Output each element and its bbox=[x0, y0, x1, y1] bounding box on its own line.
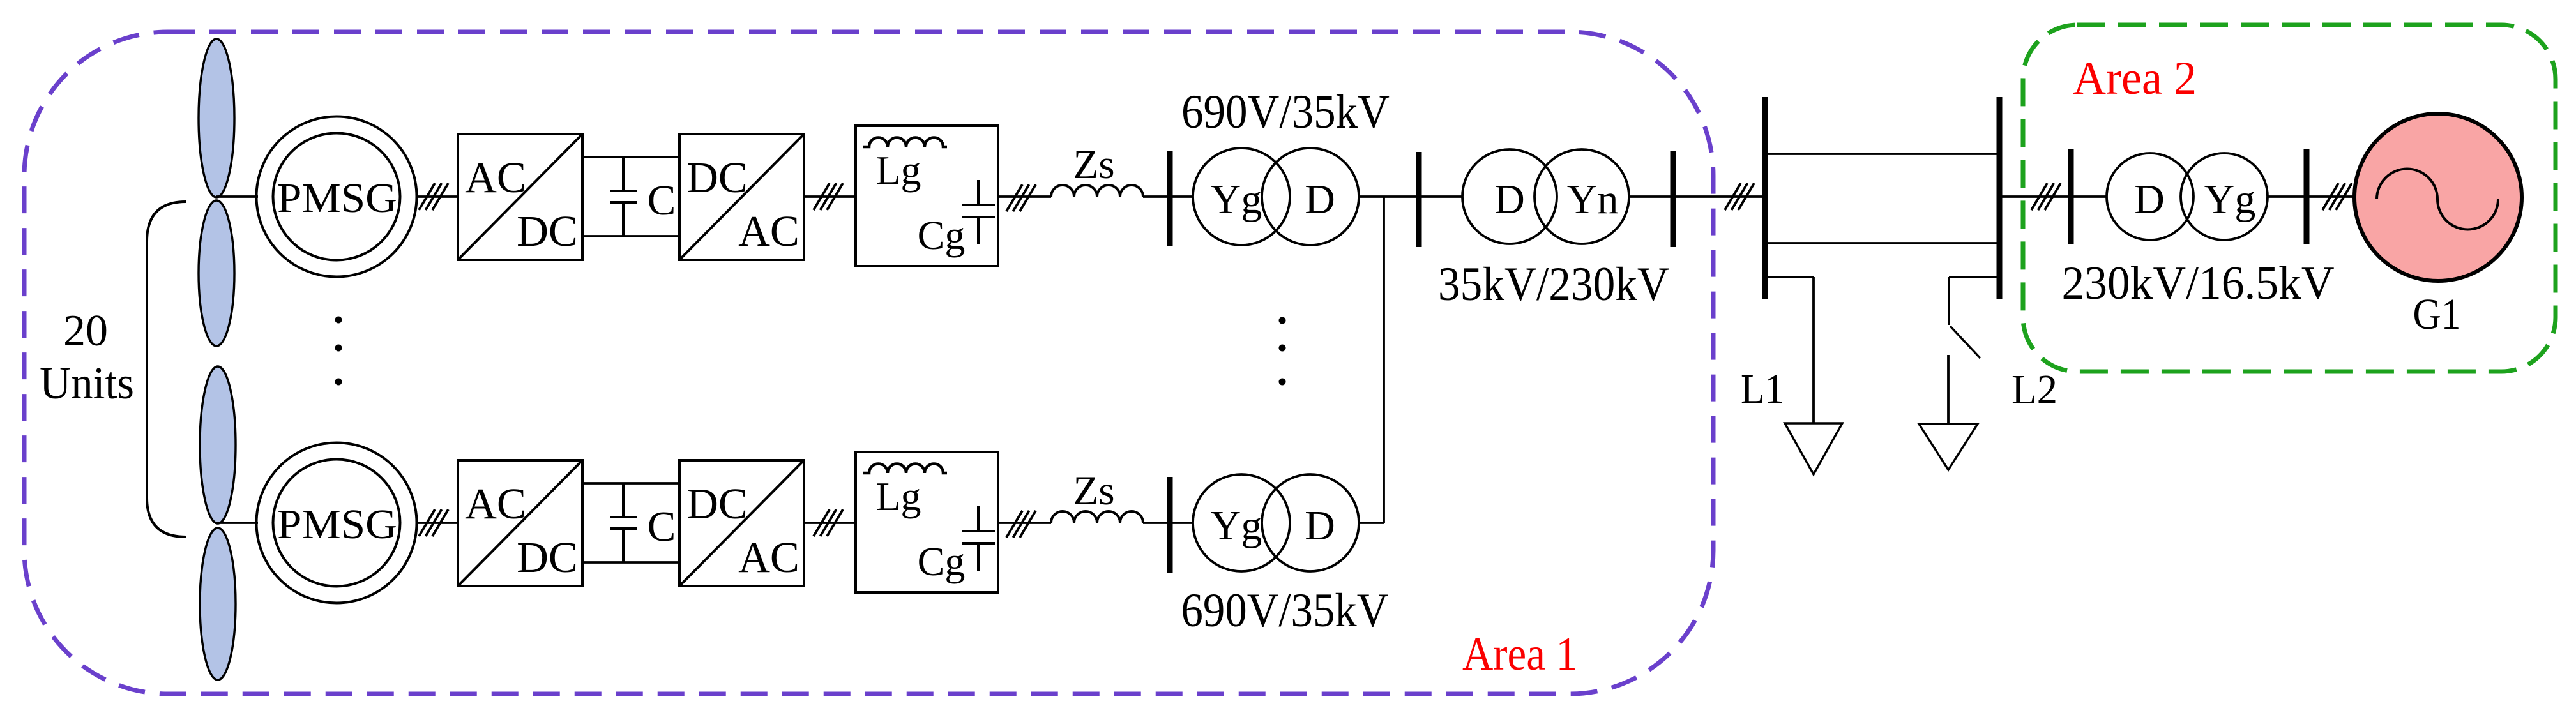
svg-text:AC: AC bbox=[465, 153, 526, 202]
wind turbine W2 blade lower bbox=[200, 528, 236, 680]
svg-text:PMSG: PMSG bbox=[277, 175, 397, 222]
three-phase slash mark (G1 output) bbox=[2322, 183, 2352, 210]
capacitor C (dc link, unit 1) bbox=[610, 157, 637, 236]
bus bar B6 (230kV Area 2) bbox=[2068, 149, 2074, 244]
switch S2 blade (open) for load L2 bbox=[1950, 326, 1980, 358]
svg-text:D: D bbox=[1494, 176, 1525, 223]
three-phase slash mark (PMSG1 output) bbox=[419, 183, 448, 210]
filter box (Lg,Cg) unit 2 bbox=[856, 452, 998, 592]
three-phase slash mark (230kV line in) bbox=[1725, 183, 1754, 210]
generator PMSG2 inner circle bbox=[273, 460, 400, 587]
bus bar B7 (16.5kV) bbox=[2304, 149, 2310, 244]
svg-text:DC: DC bbox=[517, 533, 578, 582]
bus bar B4 (sending end) bbox=[1762, 97, 1768, 299]
transformer T1 (690V/35kV) primary winding circle bbox=[1193, 148, 1290, 245]
generator PMSG2 outer circle bbox=[257, 443, 417, 603]
svg-text:Cg: Cg bbox=[918, 539, 966, 584]
Area 1 boundary (purple dashed rounded box) bbox=[24, 32, 1713, 694]
three-phase slash mark (filter 2 output) bbox=[1006, 511, 1036, 538]
wind turbine W1 blade upper bbox=[199, 39, 234, 197]
svg-text:Zs: Zs bbox=[1073, 468, 1115, 514]
svg-text:Lg: Lg bbox=[875, 474, 921, 519]
transformer T1 (690V/35kV) secondary winding circle bbox=[1262, 148, 1359, 245]
wire bus B4 to load L1 bbox=[1765, 276, 1814, 278]
converter DC/AC inverter U4 diagonal bbox=[679, 460, 804, 586]
bracket grouping the 20 units bbox=[147, 202, 186, 537]
Area 2 boundary (green dashed rounded box) bbox=[2023, 25, 2556, 372]
svg-text:L2: L2 bbox=[2012, 366, 2057, 413]
generator PMSG1 outer circle bbox=[257, 117, 417, 277]
load L2 arrow head bbox=[1919, 424, 1978, 470]
converter AC/DC rectifier U1 box bbox=[458, 134, 582, 260]
svg-text:L1: L1 bbox=[1741, 366, 1784, 412]
wind turbine W1 blade lower bbox=[199, 200, 234, 346]
svg-text:G1: G1 bbox=[2413, 290, 2461, 338]
wire bus B5 to load L2 bbox=[1949, 276, 1999, 278]
generator G1 sine wave symbol bbox=[2377, 169, 2498, 230]
wire T4 to collector junction bbox=[1359, 522, 1384, 524]
converter DC/AC inverter U2 box bbox=[679, 134, 804, 260]
wire hub1 to PMSG1 bbox=[216, 195, 258, 198]
wire transmission line circuit 2 bbox=[1765, 242, 1999, 244]
svg-text:690V/35kV: 690V/35kV bbox=[1181, 86, 1390, 139]
transformer T3 (230kV/16.5kV) primary winding circle bbox=[2107, 153, 2193, 240]
capacitor C (dc link, unit 2) bbox=[610, 483, 637, 562]
filter box (Lg,Cg) unit 1 bbox=[856, 126, 998, 266]
converter DC/AC inverter U2 diagonal bbox=[679, 134, 804, 260]
wire T1 to 35kV bus bbox=[1359, 195, 1462, 198]
svg-text:DC: DC bbox=[517, 207, 578, 255]
svg-text:D: D bbox=[1305, 502, 1335, 549]
svg-text:Lg: Lg bbox=[875, 147, 921, 193]
svg-text:C: C bbox=[648, 503, 676, 550]
bus bar B5 (receiving end) bbox=[1997, 97, 2003, 299]
wire T3 to generator G1 bbox=[2268, 195, 2356, 198]
svg-text:20: 20 bbox=[63, 306, 108, 356]
svg-text:AC: AC bbox=[465, 479, 526, 528]
inductor Lg1 coil bbox=[863, 138, 947, 147]
bus bar B2 (35kV) bbox=[1416, 152, 1422, 247]
three-phase slash mark (PMSG2 output) bbox=[419, 509, 448, 536]
svg-text:AC: AC bbox=[738, 207, 799, 255]
svg-text:Units: Units bbox=[40, 357, 134, 409]
svg-text:Yg: Yg bbox=[1211, 176, 1262, 223]
ellipsis dots (repeated units, collector side) bbox=[1279, 317, 1286, 386]
wire load L2 lower drop bbox=[1947, 355, 1950, 424]
wire filter 1 to Zs bbox=[998, 195, 1051, 198]
wire dc-link top rail (unit 1) bbox=[582, 156, 679, 158]
capacitor Cg1 bbox=[962, 180, 995, 244]
svg-text:Yn: Yn bbox=[1567, 176, 1619, 223]
svg-text:690V/35kV: 690V/35kV bbox=[1181, 584, 1389, 637]
wind turbine W2 blade upper bbox=[200, 366, 236, 523]
svg-text:DC: DC bbox=[686, 153, 748, 202]
converter AC/DC rectifier U3 diagonal bbox=[458, 460, 582, 586]
three-phase slash mark (line to Area 2) bbox=[2031, 183, 2061, 210]
inductor Zs (unit 1) bbox=[1051, 185, 1143, 197]
node J1 (35kV collector junction) wire down to unit 20 bbox=[1383, 197, 1385, 523]
generator PMSG1 inner circle bbox=[273, 133, 400, 260]
wire dc-link bottom rail (unit 20) bbox=[582, 561, 679, 564]
generator G1 circle bbox=[2354, 114, 2522, 281]
svg-text:Cg: Cg bbox=[918, 213, 966, 258]
bus bar B8 (690V collector, unit 20) bbox=[1167, 477, 1173, 573]
three-phase slash mark (filter 1 output) bbox=[1006, 184, 1036, 211]
wire PMSG1 to converter bbox=[416, 195, 458, 198]
wire hub2 to PMSG2 bbox=[215, 522, 258, 524]
svg-text:DC: DC bbox=[686, 479, 748, 528]
inductor Lg2 coil bbox=[863, 464, 947, 474]
svg-text:Area 1: Area 1 bbox=[1462, 628, 1577, 681]
transformer T3 (230kV/16.5kV) secondary winding circle bbox=[2181, 153, 2268, 240]
svg-text:Area 2: Area 2 bbox=[2073, 52, 2197, 105]
wire Zs to transformer T4 bbox=[1143, 522, 1193, 524]
bus bar B3 (230kV) bbox=[1671, 151, 1676, 247]
svg-text:35kV/230kV: 35kV/230kV bbox=[1438, 258, 1669, 311]
ellipsis dots (repeated units, turbine side) bbox=[335, 317, 342, 386]
wire inverter U2 to filter bbox=[804, 195, 856, 198]
wire load L2 upper drop bbox=[1948, 277, 1950, 325]
svg-text:AC: AC bbox=[738, 533, 799, 582]
wire dc-link bottom rail (unit 1) bbox=[582, 235, 679, 237]
wire Zs to transformer T1 bbox=[1143, 195, 1193, 198]
svg-text:D: D bbox=[2134, 176, 2165, 223]
transformer T2 (35kV/230kV) secondary winding circle bbox=[1534, 149, 1629, 244]
svg-text:Yg: Yg bbox=[2204, 176, 2256, 223]
svg-text:D: D bbox=[1305, 176, 1335, 223]
capacitor Cg2 bbox=[962, 506, 995, 571]
wire inverter U4 to filter bbox=[804, 522, 856, 524]
wire transmission line circuit 1 bbox=[1765, 153, 1999, 155]
wire PMSG2 to converter bbox=[416, 522, 458, 524]
converter AC/DC rectifier U3 box bbox=[458, 460, 582, 586]
wire transmission bus to T3 bbox=[1999, 195, 2107, 198]
transformer T4 (690V/35kV) secondary winding circle bbox=[1262, 474, 1359, 571]
three-phase slash mark (inverter 2 output) bbox=[814, 509, 843, 536]
svg-text:C: C bbox=[648, 177, 676, 224]
svg-text:230kV/16.5kV: 230kV/16.5kV bbox=[2062, 257, 2335, 310]
bus bar B1 (690V collector, unit 1) bbox=[1167, 151, 1173, 246]
transformer T4 (690V/35kV) primary winding circle bbox=[1193, 474, 1290, 571]
wire load L1 drop bbox=[1812, 277, 1815, 423]
wire T2 to transmission bus bbox=[1629, 195, 1765, 198]
svg-text:PMSG: PMSG bbox=[277, 501, 397, 548]
wire dc-link top rail (unit 20) bbox=[582, 482, 679, 485]
converter AC/DC rectifier U1 diagonal bbox=[458, 134, 582, 260]
load L1 arrow head bbox=[1785, 423, 1842, 474]
transformer T2 (35kV/230kV) primary winding circle bbox=[1462, 149, 1557, 244]
wire filter 2 to Zs bbox=[998, 522, 1051, 524]
converter DC/AC inverter U4 box bbox=[679, 460, 804, 586]
svg-text:Zs: Zs bbox=[1073, 142, 1115, 188]
svg-text:Yg: Yg bbox=[1211, 502, 1262, 549]
inductor Zs (unit 2) bbox=[1051, 511, 1143, 523]
three-phase slash mark (inverter 1 output) bbox=[814, 183, 843, 210]
